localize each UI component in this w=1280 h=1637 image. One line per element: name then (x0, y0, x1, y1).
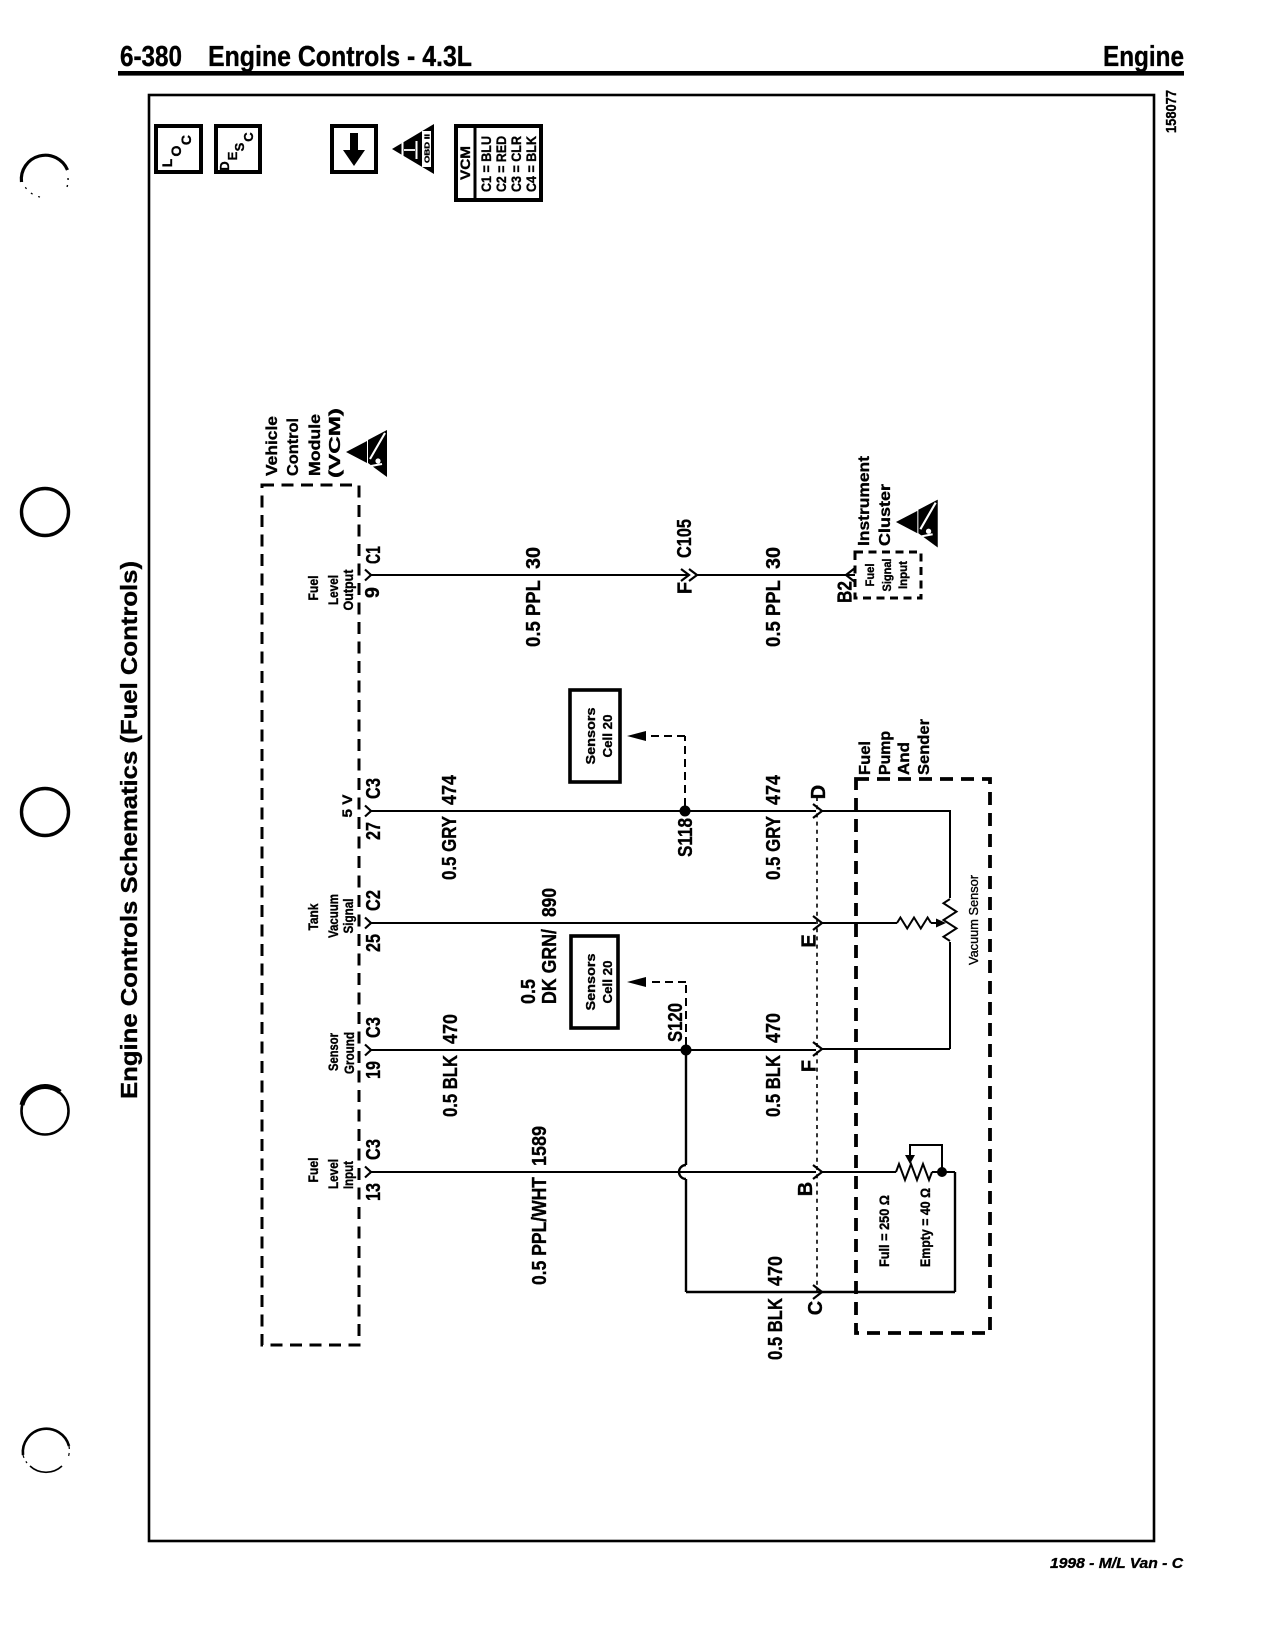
wire: 0.5 GRY 474 (VCM to S118) (371, 810, 816, 812)
terminal 9 C1 on VCM (365, 570, 371, 581)
svg-text:C3: C3 (363, 1139, 385, 1160)
splice S120 (681, 1045, 692, 1056)
wiper wire to vacuum sensor potentiometer (822, 922, 897, 924)
svg-text:F: F (675, 582, 697, 594)
wire: 0.5 BLK 470 (VCM to S120) (371, 1049, 816, 1051)
svg-text:474: 474 (763, 774, 785, 805)
svg-text:0.5 PPL: 0.5 PPL (523, 580, 545, 647)
svg-text:L: L (159, 158, 175, 167)
svg-text:Level: Level (325, 1159, 341, 1189)
svg-text:Tank: Tank (305, 903, 321, 930)
svg-text:E: E (225, 151, 240, 160)
svg-text:19: 19 (363, 1061, 385, 1079)
svg-text:Sender: Sender (916, 719, 933, 775)
svg-text:Level: Level (325, 575, 341, 605)
svg-text:0.5 PPL: 0.5 PPL (763, 580, 785, 647)
wire into pump box, to vacuum sensor top (822, 811, 950, 898)
svg-text:Fuel: Fuel (857, 741, 874, 775)
icon box LOC (156, 126, 201, 172)
svg-text:Full = 250 Ω: Full = 250 Ω (877, 1195, 892, 1267)
svg-text:C: C (241, 132, 256, 142)
svg-text:And: And (896, 742, 913, 775)
in-line connector F / C105 (681, 569, 689, 581)
svg-text:470: 470 (440, 1014, 462, 1044)
wire: 0.5 BLK 470 to terminal C (686, 1291, 955, 1293)
dashed reference arrow to Sensors Cell 20 (S120) (685, 982, 687, 1045)
splice S118 (680, 806, 691, 817)
terminal B2 at instrument cluster (846, 568, 855, 582)
svg-text:C1 = BLU: C1 = BLU (479, 136, 494, 192)
svg-text:C3: C3 (363, 1017, 385, 1038)
svg-text:25: 25 (363, 934, 385, 952)
svg-text:OBD II: OBD II (423, 134, 432, 163)
svg-text:13: 13 (363, 1183, 385, 1201)
svg-text:5 V: 5 V (339, 794, 355, 818)
svg-text:0.5 BLK: 0.5 BLK (765, 1298, 787, 1360)
binder hole 4 (22, 1088, 69, 1135)
svg-text:Vehicle: Vehicle (264, 416, 281, 476)
svg-text:470: 470 (763, 1013, 785, 1043)
svg-text:Sensors: Sensors (583, 954, 598, 1011)
svg-text:VCM: VCM (457, 146, 473, 180)
svg-text:C105: C105 (674, 519, 696, 558)
svg-text:C3: C3 (363, 778, 385, 799)
svg-text:Signal: Signal (340, 899, 356, 934)
svg-text:S120: S120 (665, 1003, 687, 1042)
svg-text:30: 30 (763, 547, 785, 569)
svg-text:Sensors: Sensors (583, 708, 598, 765)
fuel level sender resistor (896, 1164, 932, 1180)
svg-text:(VCM): (VCM) (327, 408, 344, 478)
svg-text:Module: Module (307, 414, 324, 476)
svg-text:0.5 BLK: 0.5 BLK (440, 1055, 462, 1117)
svg-text:Fuel: Fuel (305, 576, 321, 601)
svg-text:C2 = RED: C2 = RED (494, 136, 509, 192)
svg-text:9: 9 (362, 587, 384, 598)
dashed reference arrow to Sensors Cell 20 (S118) (684, 736, 686, 806)
wire: 0.5 PPL 30 (VCM to C105) (371, 574, 687, 576)
svg-text:C1: C1 (363, 546, 385, 564)
svg-text:S: S (232, 142, 247, 151)
wire from S120 down with hop over fuel level input wire (685, 1050, 687, 1165)
svg-text:C2: C2 (363, 890, 385, 911)
svg-text:Output: Output (340, 569, 356, 610)
ESD notice triangle at VCM (346, 430, 387, 477)
reference box Sensors Cell 20 (lower) (571, 936, 618, 1028)
svg-text:30: 30 (523, 547, 545, 569)
svg-text:O: O (168, 145, 184, 156)
svg-text:27: 27 (363, 822, 385, 840)
terminal D (813, 804, 822, 818)
terminal F (813, 1042, 822, 1056)
svg-text:Vacuum Sensor: Vacuum Sensor (966, 874, 981, 965)
sender wiper arm (905, 1155, 915, 1164)
svg-text:C3 = CLR: C3 = CLR (509, 136, 524, 192)
svg-text:Fuel: Fuel (863, 564, 877, 587)
svg-text:Empty = 40 Ω: Empty = 40 Ω (918, 1188, 933, 1267)
svg-text:158077: 158077 (1163, 90, 1180, 133)
svg-text:Control: Control (285, 418, 302, 476)
svg-text:6-380: 6-380 (120, 41, 182, 73)
svg-text:Sensor: Sensor (325, 1033, 341, 1071)
svg-text:Engine Controls - 4.3L: Engine Controls - 4.3L (208, 41, 472, 73)
wire: 0.5 DK GRN/ 890 (371, 922, 816, 924)
svg-text:S118: S118 (675, 818, 697, 857)
binder hole 2 (22, 489, 69, 536)
terminal 19 C3 on VCM (365, 1045, 371, 1056)
svg-text:Cell 20: Cell 20 (600, 961, 615, 1004)
svg-text:Fuel: Fuel (305, 1158, 321, 1183)
svg-text:Cluster: Cluster (877, 484, 894, 546)
svg-text:Input: Input (340, 1161, 356, 1189)
icon VCM connector color table (456, 126, 541, 200)
instrument cluster dashed box (855, 552, 921, 598)
wire: 0.5 PPL 30 (C105 to instrument cluster) (697, 574, 855, 576)
icon OBD II triangle (392, 124, 434, 174)
VCM dashed box (262, 485, 359, 1345)
svg-text:Instrument: Instrument (856, 455, 873, 546)
svg-text:DK GRN/: DK GRN/ (539, 929, 561, 1004)
svg-text:D: D (217, 161, 232, 170)
wire: 0.5 PPL/WHT 1589 (371, 1171, 816, 1173)
svg-text:470: 470 (765, 1256, 787, 1286)
svg-text:Vacuum: Vacuum (325, 894, 341, 938)
svg-text:0.5 GRY: 0.5 GRY (439, 815, 461, 880)
vacuum sensor resistance element (944, 899, 957, 941)
svg-text:Signal: Signal (880, 559, 894, 592)
terminal E (813, 916, 822, 930)
svg-text:0.5 BLK: 0.5 BLK (763, 1055, 785, 1117)
binder hole 5 (23, 1429, 69, 1455)
terminal 27 C3 on VCM (365, 806, 371, 817)
svg-text:1998 - M/L Van - C: 1998 - M/L Van - C (1050, 1555, 1184, 1572)
svg-text:C: C (805, 1301, 827, 1315)
svg-text:1589: 1589 (529, 1126, 551, 1166)
svg-text:C4 = BLK: C4 = BLK (524, 136, 539, 192)
svg-text:B2: B2 (835, 581, 857, 603)
terminal C (813, 1285, 822, 1299)
svg-text:Input: Input (896, 561, 910, 589)
svg-text:Ground: Ground (341, 1032, 357, 1074)
schematic frame border (149, 95, 1154, 1541)
svg-text:474: 474 (439, 774, 461, 805)
terminal 13 C3 on VCM (365, 1167, 371, 1178)
svg-text:0.5 GRY: 0.5 GRY (763, 815, 785, 880)
icon box down-arrow (332, 126, 376, 172)
ESD notice triangle at instrument cluster (896, 500, 938, 548)
fuel pump and sender dashed box (856, 779, 990, 1333)
terminal B (813, 1165, 822, 1179)
terminal 25 C2 on VCM (365, 918, 371, 929)
binder hole 1 (21, 155, 67, 182)
svg-text:0.5: 0.5 (518, 979, 540, 1004)
svg-text:890: 890 (539, 888, 561, 917)
connector dotted boundary at fuel pump/sender (816, 797, 818, 1292)
binder hole 3 (22, 789, 69, 836)
icon box DESC (216, 126, 260, 172)
svg-text:C: C (178, 135, 194, 145)
svg-text:Engine: Engine (1103, 41, 1184, 73)
reference box Sensors Cell 20 (upper) (570, 690, 620, 782)
svg-text:Engine Controls Schematics (Fu: Engine Controls Schematics (Fuel Control… (116, 561, 142, 1099)
svg-text:Pump: Pump (877, 731, 894, 775)
svg-text:0.5 PPL/WHT: 0.5 PPL/WHT (529, 1177, 551, 1285)
svg-text:D: D (808, 785, 830, 799)
svg-text:Cell 20: Cell 20 (600, 715, 615, 758)
svg-text:B: B (795, 1182, 817, 1196)
